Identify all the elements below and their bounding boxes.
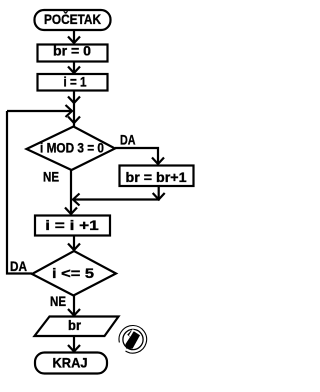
wire i=i+1 to diamond2: [68, 236, 80, 251]
wire i=1 to diamond1 with mid arrowhead: [68, 91, 80, 127]
process i = 1: [38, 74, 108, 91]
output parallelogram br: [35, 317, 119, 337]
wire output to KRAJ: [68, 336, 80, 352]
wire DA loop back: [7, 111, 32, 274]
wire br=br+1 down-left to join: [73, 186, 165, 206]
terminator POCETAK: [35, 10, 111, 30]
logo outer arc: [119, 326, 147, 354]
svg-text:NE: NE: [50, 293, 66, 309]
decision i <= 5: [32, 251, 116, 296]
process br = 0: [38, 43, 108, 62]
svg-text:i MOD 3 = 0: i MOD 3 = 0: [40, 140, 104, 156]
logo glyph head: [127, 330, 133, 336]
svg-text:br = 0: br = 0: [53, 43, 91, 59]
process br = br+1: [120, 166, 194, 187]
svg-text:POČETAK: POČETAK: [44, 10, 101, 27]
process i = i +1: [35, 216, 110, 236]
svg-text:i = 1: i = 1: [64, 74, 87, 90]
wire start to br=0: [68, 30, 80, 43]
logo inner circle: [123, 329, 143, 349]
svg-text:i <= 5: i <= 5: [52, 265, 94, 281]
wire DA branch to br=br+1: [115, 148, 164, 164]
svg-text:NE: NE: [43, 169, 59, 185]
logo glyph bar: [125, 331, 140, 348]
wire NE2 to output: [68, 296, 80, 316]
svg-text:DA: DA: [10, 258, 27, 274]
decision i MOD 3 = 0: [27, 127, 116, 171]
svg-text:DA: DA: [120, 132, 136, 148]
terminator KRAJ: [35, 353, 107, 374]
svg-text:br = br+1: br = br+1: [126, 169, 187, 185]
svg-text:br: br: [68, 317, 82, 333]
svg-text:KRAJ: KRAJ: [53, 354, 88, 370]
wire NE branch to i=i+1: [65, 170, 77, 215]
logo glyph notch: [130, 330, 134, 336]
svg-text:i = i +1: i = i +1: [45, 217, 99, 233]
wire loop return (junction arrow): [7, 105, 72, 117]
wire br=0 to i=1: [68, 62, 80, 74]
